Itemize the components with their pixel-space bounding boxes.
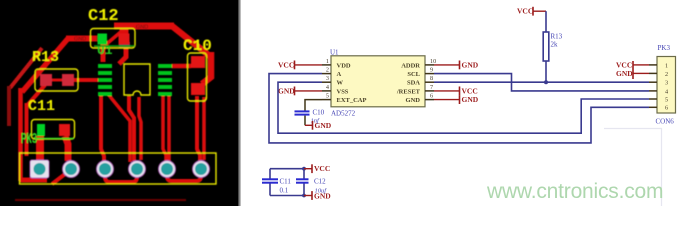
power port GND at U1 pin4 xyxy=(278,86,322,95)
wire GND to pin4 xyxy=(295,90,323,92)
wire: band diagonal down to C10 area xyxy=(172,26,211,57)
node: junction bottom rail xyxy=(302,194,306,198)
power port GND at U1 pin10 xyxy=(434,60,479,69)
silkscreen line under U1 text xyxy=(94,45,135,47)
pads: U1 footprint right SMD pads xyxy=(158,64,172,96)
wire: W net U1 pin3 to PK3 pin5 xyxy=(278,82,649,133)
power port GND at PK3 pin2 xyxy=(616,69,649,78)
svg-text:GND: GND xyxy=(74,37,86,43)
PK3 pin leads xyxy=(649,65,657,107)
svg-text:SCL: SCL xyxy=(407,71,420,78)
pad: C11 green pad xyxy=(37,124,45,136)
svg-text:GND: GND xyxy=(315,121,332,130)
decoupling caps C11/C12 rails xyxy=(262,167,327,198)
wire: bottom rail xyxy=(270,195,304,197)
box PK3 pad row xyxy=(20,153,217,184)
wire: second diagonal near left edge xyxy=(10,48,42,88)
wire: wrap under pad 1 xyxy=(19,178,47,183)
connector PK3 xyxy=(656,44,676,126)
wire: R13 pads link xyxy=(50,79,64,82)
svg-text:4: 4 xyxy=(665,88,668,95)
svg-text:AD5272: AD5272 xyxy=(331,110,356,118)
pad 6 xyxy=(193,161,210,178)
wire: U loop pad5-pad6 xyxy=(167,170,201,181)
svg-text:3: 3 xyxy=(326,75,329,82)
wire: C12 green pad down to U1 pads xyxy=(101,44,106,62)
wire: C11 red pad down to pad2 xyxy=(65,136,68,161)
box C12 xyxy=(91,29,136,49)
svg-text:6: 6 xyxy=(665,105,668,112)
svg-text:C12: C12 xyxy=(88,7,119,26)
node: junction top rail xyxy=(302,167,306,171)
svg-text:3: 3 xyxy=(665,80,668,87)
pad: C10 top pad xyxy=(191,56,205,68)
wire: bottom dark board line xyxy=(15,199,186,201)
svg-text:VCC: VCC xyxy=(517,7,533,16)
power port VCC at U1 pin1 xyxy=(278,60,322,69)
wire: top rail xyxy=(270,168,304,170)
wire: U1 right pads down to pad5 xyxy=(163,95,166,162)
U1 pin numbers xyxy=(326,58,436,100)
resistor R13 xyxy=(543,11,562,82)
wire: U1 bottom pair to pad4 xyxy=(129,96,134,161)
wire: left vertical to PK3 pad1 area xyxy=(18,88,23,181)
svg-text:5: 5 xyxy=(326,93,329,100)
capacitor C12 xyxy=(303,169,305,179)
power port VCC on cap rail xyxy=(304,164,330,173)
wire: C12 red pad down to U1 xyxy=(119,44,126,64)
pad 4 xyxy=(129,161,146,178)
wire: dark left-edge vertical xyxy=(7,86,11,126)
box C11 xyxy=(32,120,75,140)
svg-text:VSS: VSS xyxy=(337,88,349,95)
power port VCC at U1 pin7 xyxy=(434,86,478,95)
svg-text:CON6: CON6 xyxy=(656,118,675,126)
PK3 pin numbers xyxy=(665,62,668,111)
pad: C12 green pad xyxy=(98,34,108,45)
soft boundary between photo and schematic xyxy=(238,0,240,206)
svg-text:GND: GND xyxy=(616,69,633,78)
svg-text:8: 8 xyxy=(430,75,433,82)
capacitor C11 xyxy=(269,169,271,179)
wire: U1 right pads to C10 top pad xyxy=(172,64,191,69)
svg-text:U1: U1 xyxy=(330,49,339,57)
box C10 xyxy=(188,53,207,101)
power port GND on cap rail xyxy=(304,191,331,200)
svg-text:C11: C11 xyxy=(28,98,55,115)
svg-text:10: 10 xyxy=(430,58,436,65)
wire: C11 green pad down to pad1 xyxy=(36,136,44,161)
svg-text:C11: C11 xyxy=(280,178,292,186)
wire: pad2 diagonal link toward pad1 xyxy=(52,171,69,184)
wire: A net U1 pin2 to PK3 pin6 xyxy=(269,74,649,143)
wire: C12 red pad up to band xyxy=(120,24,129,34)
node: junction R13/SDA xyxy=(544,80,548,84)
svg-text:9: 9 xyxy=(430,67,433,74)
svg-text:1: 1 xyxy=(326,58,329,65)
svg-text:SDA: SDA xyxy=(407,80,420,87)
power port GND at U1 pin6 xyxy=(434,95,479,104)
wire: right vertical to C10 bottom pad xyxy=(202,52,211,84)
U1 pin names xyxy=(337,62,421,104)
svg-text:2: 2 xyxy=(326,67,329,74)
svg-text:GND: GND xyxy=(462,60,479,69)
svg-text:VCC: VCC xyxy=(278,60,294,69)
wire: U1 left pad down bend to pad4 xyxy=(108,94,130,162)
wire: top GND pour band xyxy=(114,23,174,30)
pad: C10 bottom pad xyxy=(191,83,205,95)
svg-text:PK3: PK3 xyxy=(21,131,37,148)
svg-text:A: A xyxy=(337,71,342,78)
svg-text:GND: GND xyxy=(314,192,331,201)
sheet border corner (faint) xyxy=(604,129,662,207)
wire: big diagonal to lower-left xyxy=(22,39,68,93)
svg-text:www.cntronics.com: www.cntronics.com xyxy=(486,180,663,203)
svg-text:R13: R13 xyxy=(32,49,59,66)
wire: SCL net U1 pin9 jog to PK3 pin4 xyxy=(434,74,649,91)
svg-text:2: 2 xyxy=(665,71,668,78)
wire: diagonal inside C12 box xyxy=(103,30,123,47)
box R13 xyxy=(35,69,78,91)
wire: C10 bottom pad down to pad6 xyxy=(197,96,200,162)
wire: C10 bottom second trace xyxy=(202,97,206,160)
wire: R13 left pad diagonal down xyxy=(28,85,46,105)
U1 pin leads (dark stubs) xyxy=(322,65,434,100)
wire: second left vertical to pads box xyxy=(25,103,29,156)
svg-text:EXT_CAP: EXT_CAP xyxy=(337,97,367,104)
power port GND below C10 xyxy=(305,121,332,130)
svg-text:PK3: PK3 xyxy=(658,44,671,52)
svg-text:7: 7 xyxy=(430,84,433,91)
svg-text:R13: R13 xyxy=(551,33,563,41)
capacitor C10 on EXT_CAP xyxy=(295,100,325,126)
silkscreen line right of PK3 xyxy=(36,138,74,140)
svg-text:4: 4 xyxy=(326,84,329,91)
silkscreen component boxes (yellow) xyxy=(20,29,217,185)
svg-text:W: W xyxy=(337,80,344,87)
svg-text:ADDR: ADDR xyxy=(401,62,420,69)
pad: C12 red pad (with dark fringe) xyxy=(119,42,130,48)
svg-text:0.1: 0.1 xyxy=(280,186,289,194)
wire VCC to pin1 xyxy=(295,64,323,66)
pads: U1 footprint left SMD pads xyxy=(98,64,112,96)
svg-text:GND: GND xyxy=(462,95,479,104)
wire: U1 bottom pair second xyxy=(139,97,141,160)
svg-text:5: 5 xyxy=(665,96,668,103)
svg-text:VCC: VCC xyxy=(314,164,330,173)
svg-text:2k: 2k xyxy=(551,41,559,49)
pad: R13 right pad xyxy=(62,74,74,86)
pad: R13 left pad xyxy=(40,74,52,86)
wire: U1 right pads down second xyxy=(167,95,171,162)
svg-text:/RESET: /RESET xyxy=(396,88,421,95)
wire: U loop pad3-pad4 xyxy=(105,170,137,182)
box U1 chip outline with notch xyxy=(124,64,150,95)
IC U1 AD5272 digital potentiometer xyxy=(330,49,425,118)
wire: U1 left pad down to pad3 xyxy=(101,95,104,163)
svg-text:6: 6 xyxy=(430,93,433,100)
wire: R13 right pad to U1 left pads xyxy=(72,78,98,82)
power port VCC at PK3 pin1 xyxy=(616,60,649,79)
pad 3 xyxy=(97,161,114,178)
wire: SDA net U1 pin8 to PK3 pin3 xyxy=(434,81,649,83)
svg-text:GND: GND xyxy=(278,86,295,95)
pad 2 xyxy=(63,161,80,178)
pad 1 square xyxy=(30,160,49,178)
svg-text:VDD: VDD xyxy=(337,62,351,69)
svg-text:1: 1 xyxy=(665,62,668,69)
PCB photo panel background xyxy=(0,0,239,206)
wire: mid band left of C12 xyxy=(66,36,97,42)
svg-text:C12: C12 xyxy=(314,178,326,186)
pad: C11 red pad xyxy=(59,124,70,136)
pad 5 xyxy=(159,161,176,178)
svg-text:GND: GND xyxy=(406,97,421,104)
svg-text:GND: GND xyxy=(136,25,148,31)
svg-text:C10: C10 xyxy=(313,109,325,117)
connector PK3 through-hole pads xyxy=(30,160,210,178)
svg-text:C10: C10 xyxy=(183,37,212,55)
power port VCC above R13 xyxy=(517,7,546,16)
svg-text:VCC: VCC xyxy=(462,86,478,95)
